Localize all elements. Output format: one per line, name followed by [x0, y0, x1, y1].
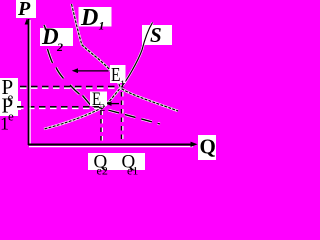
svg-text:1: 1: [120, 79, 126, 91]
svg-text:1: 1: [0, 113, 9, 133]
shift arrow upper (D1 to D2): [77, 70, 109, 72]
svg-text:e2: e2: [97, 164, 108, 177]
supply curve S stripe flecks: [44, 88, 121, 129]
shift arrow lower (near E2): [111, 103, 120, 105]
white label box E2: [90, 92, 107, 107]
supply curve S: [44, 23, 153, 130]
dashed price line Pe2 (y=106.8): [17, 106, 99, 108]
dashed quantity line Qe2 white halo (x=101): [101, 111, 103, 144]
svg-text:e1: e1: [127, 164, 138, 177]
white label box Qe (bottom): [88, 153, 145, 170]
white label box S: [142, 25, 172, 45]
demand curve D1 lower white halo: [121, 88, 179, 111]
Q axis (horizontal): [28, 144, 191, 146]
dashed quantity line Qe1 white halo (x=121.5): [122, 92, 124, 143]
demand curve D2 upper (hand-placed dashes): [44, 25, 91, 105]
demand curve D1 upper: [72, 4, 121, 88]
white label box P (axis label): [16, 0, 36, 18]
svg-text:P: P: [17, 0, 31, 20]
white label box D2: [40, 28, 73, 46]
dashed quantity line Qe1 (x=121.5): [121, 92, 123, 143]
demand curve D1 upper white halo: [72, 4, 121, 88]
demand curve D2 lower (dashed) white halo: [92, 106, 160, 124]
svg-text:2: 2: [56, 40, 63, 54]
dashed price line Pe1 white halo: [20, 86, 118, 88]
white label box left prices: [0, 78, 18, 116]
demand curve D1 lower: [121, 88, 179, 111]
dashed quantity line Qe2 (x=101): [100, 111, 102, 144]
P axis (vertical): [28, 19, 30, 145]
demand curve D2 lower (dashed): [92, 106, 160, 124]
white label box Q (axis label): [198, 135, 216, 160]
Q axis white halo: [29, 146, 193, 148]
demand curve D1 lower stripe flecks: [121, 88, 179, 111]
P axis white halo: [29, 20, 31, 144]
Q axis arrowhead: [191, 142, 198, 147]
white label box E1: [110, 65, 126, 83]
dashed price line Pe1 (y=86.5): [20, 86, 118, 88]
svg-text:2: 2: [100, 102, 106, 114]
demand curve D1 upper stripe flecks: [72, 4, 121, 88]
svg-text:S: S: [150, 23, 162, 47]
supply curve S white halo: [44, 23, 153, 130]
white label box D1: [79, 7, 112, 27]
dashed price line Pe2 white halo: [17, 107, 99, 109]
svg-text:1: 1: [99, 19, 105, 33]
svg-text:D: D: [80, 5, 98, 31]
P axis arrowhead: [25, 19, 30, 25]
svg-text:Q: Q: [200, 135, 216, 159]
demand curve D2 upper (hand-placed dashes) white halo: [44, 25, 91, 105]
